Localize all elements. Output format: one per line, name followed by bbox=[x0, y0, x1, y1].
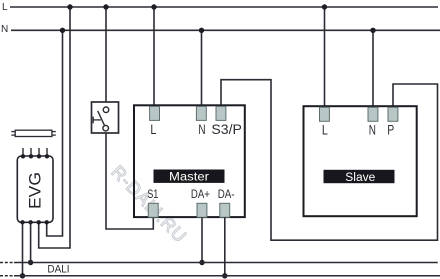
master terminal N bbox=[196, 106, 206, 137]
wire N to master terminal N bbox=[201, 30, 203, 107]
junction on DALI line 2 bbox=[222, 273, 227, 278]
slave terminal L bbox=[320, 107, 330, 137]
wire N to slave terminal N bbox=[372, 30, 374, 107]
EVG top pin 1 bbox=[21, 148, 25, 159]
push-button S bbox=[92, 102, 119, 133]
slave label banner bbox=[324, 170, 395, 184]
svg-text:P: P bbox=[387, 123, 394, 138]
wire L to master terminal L bbox=[153, 7, 155, 107]
EVG top pin 3 bbox=[37, 148, 41, 159]
wire N to EVG pin4 bbox=[47, 30, 63, 236]
slave terminal P bbox=[387, 107, 398, 137]
svg-text:EVG: EVG bbox=[26, 172, 45, 209]
svg-text:N: N bbox=[1, 24, 8, 35]
junction on L at x=106 bbox=[103, 4, 108, 9]
wire EVG pin1 to DALI line 2 bbox=[22, 222, 24, 275]
EVG top pin 4 bbox=[45, 148, 49, 159]
wire push-button to master S1 bbox=[106, 133, 153, 229]
net N (mains line) bbox=[1, 24, 440, 35]
slave unit box bbox=[304, 106, 417, 216]
master terminal DA+ bbox=[191, 189, 210, 217]
junction on L at x=70 bbox=[67, 4, 72, 9]
wire L to slave terminal L bbox=[324, 7, 326, 107]
svg-text:L: L bbox=[322, 123, 328, 138]
master control unit box bbox=[134, 105, 245, 217]
wire L to push-button bbox=[105, 7, 107, 102]
wire master S3/P to slave P (routed around slave) bbox=[221, 80, 438, 241]
svg-text:Master: Master bbox=[169, 172, 209, 184]
wire master DA- to DALI line 2 bbox=[224, 217, 226, 275]
slave terminal N bbox=[368, 107, 378, 137]
junction on DALI line 1 bbox=[199, 260, 204, 265]
lamp bbox=[11, 130, 56, 136]
svg-text:S3/P: S3/P bbox=[211, 122, 242, 137]
master terminal S3/P bbox=[211, 106, 242, 137]
junction on DALI line 1 bbox=[28, 260, 33, 265]
svg-text:L: L bbox=[150, 122, 156, 137]
junction on N at x=373 bbox=[370, 28, 375, 33]
svg-text:Slave: Slave bbox=[345, 172, 375, 184]
junction on N at x=201.5 bbox=[199, 28, 204, 33]
junction on L at x=154 bbox=[151, 4, 156, 9]
svg-text:DALI: DALI bbox=[47, 263, 69, 275]
DALI bus line 2 bbox=[0, 275, 440, 277]
svg-text:N: N bbox=[198, 122, 205, 137]
watermark R-DALI.RU bbox=[108, 162, 191, 247]
EVG top pin 2 bbox=[29, 148, 33, 159]
svg-text:DA-: DA- bbox=[218, 189, 235, 201]
wire EVG pin2 to DALI line 1 bbox=[30, 222, 32, 262]
svg-text:S1: S1 bbox=[147, 189, 158, 201]
junction on DALI line 2 bbox=[20, 273, 25, 278]
wire master DA+ to DALI line 1 bbox=[201, 217, 203, 262]
master terminal DA- bbox=[218, 189, 235, 217]
net L (mains line) bbox=[2, 2, 438, 13]
wire L to EVG pin3 bbox=[39, 7, 70, 248]
master label banner bbox=[154, 170, 225, 184]
junction on L at x=324.5 bbox=[322, 4, 327, 9]
svg-text:N: N bbox=[369, 123, 376, 138]
ballast EVG bbox=[17, 156, 53, 222]
master terminal S1 bbox=[147, 189, 158, 217]
DALI bus line 1 bbox=[0, 262, 438, 264]
svg-text:L: L bbox=[2, 2, 8, 13]
EVG bottom pin dots bbox=[20, 220, 49, 224]
svg-text:DA+: DA+ bbox=[191, 189, 210, 201]
master terminal L bbox=[150, 106, 160, 137]
junction on N at x=62.5 bbox=[60, 28, 65, 33]
